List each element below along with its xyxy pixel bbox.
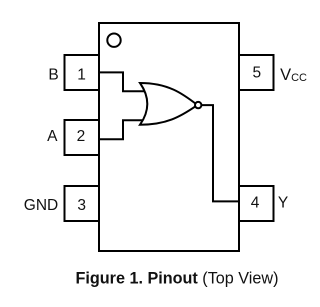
svg-text:GND: GND bbox=[24, 197, 58, 214]
pin-1 indicator circle bbox=[107, 34, 120, 47]
svg-text:B: B bbox=[48, 67, 58, 84]
pin 1 box bbox=[65, 55, 100, 90]
pin 3 box bbox=[65, 186, 100, 221]
svg-text:A: A bbox=[47, 128, 58, 145]
NOR gate U1 body bbox=[140, 83, 197, 125]
package outline bbox=[99, 23, 239, 251]
pin 5 box bbox=[239, 55, 274, 90]
wire bbox=[201, 105, 239, 201]
pin 2 box bbox=[65, 120, 100, 155]
svg-text:Figure 1. Pinout (Top View): Figure 1. Pinout (Top View) bbox=[76, 270, 279, 288]
svg-text:5: 5 bbox=[252, 64, 261, 81]
svg-text:3: 3 bbox=[77, 197, 86, 214]
NOR gate output bubble bbox=[195, 102, 201, 108]
pin 4 box bbox=[239, 186, 274, 221]
svg-text:VCC: VCC bbox=[280, 66, 307, 84]
svg-text:4: 4 bbox=[251, 195, 260, 212]
wire bbox=[99, 120, 146, 139]
svg-text:Y: Y bbox=[278, 195, 288, 212]
svg-text:1: 1 bbox=[77, 67, 86, 84]
wire bbox=[99, 72, 146, 91]
svg-text:2: 2 bbox=[77, 128, 86, 145]
